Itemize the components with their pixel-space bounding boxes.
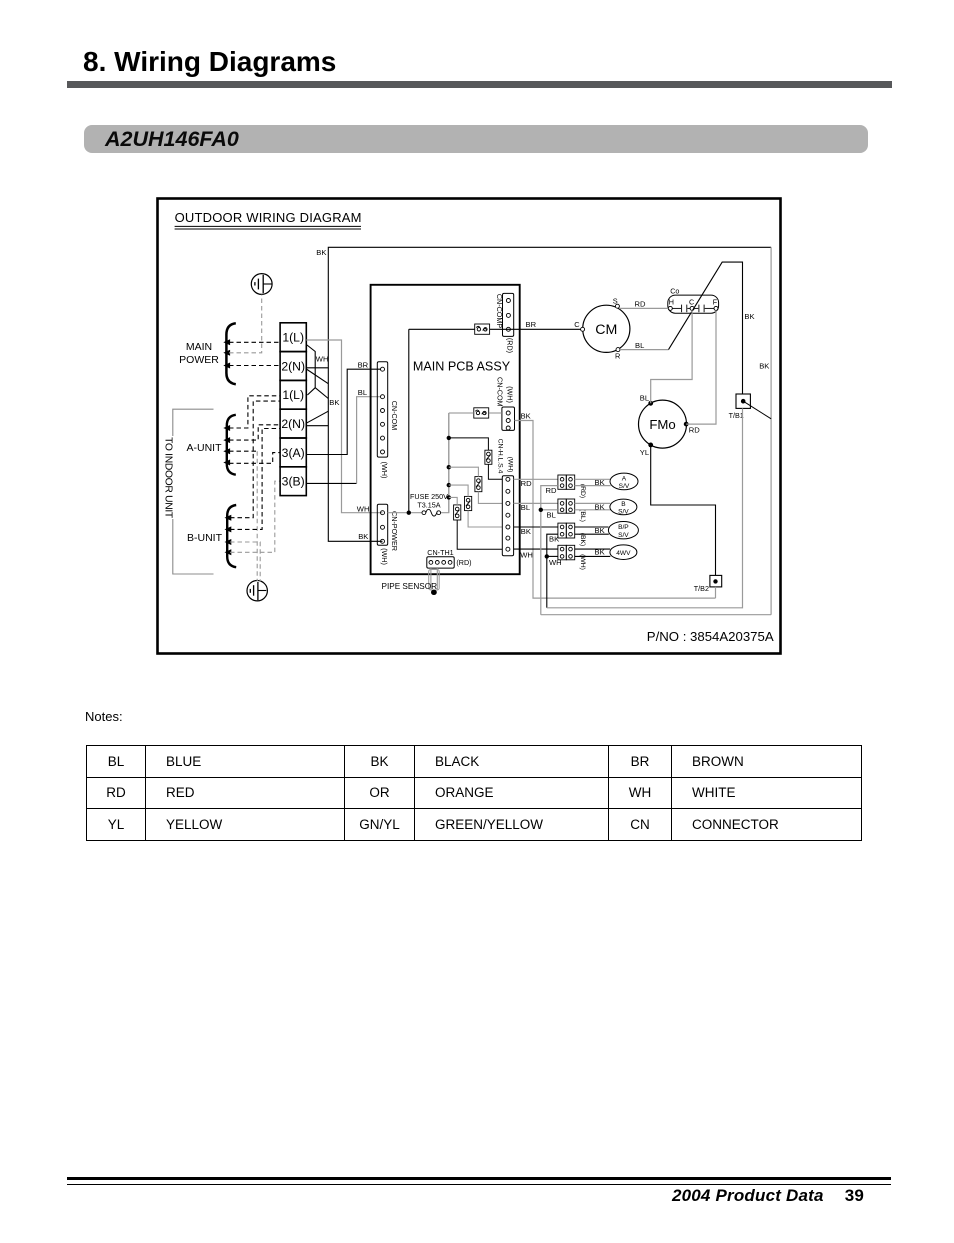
svg-text:BK: BK <box>549 534 559 543</box>
title OUTDOOR WIRING DIAGRAM <box>175 210 362 229</box>
B-UNIT brace <box>227 505 236 567</box>
wire WH branch <box>547 555 558 557</box>
arrow B-unit 4 <box>225 549 232 555</box>
wire BL CM R to TB1 <box>620 349 669 351</box>
arrow main power 3 <box>223 363 230 369</box>
arrow B-unit 2 <box>225 526 232 532</box>
svg-text:WH: WH <box>549 558 562 567</box>
svg-text:BL: BL <box>358 388 367 397</box>
wire relay R4 feed <box>449 497 457 505</box>
diagram frame <box>158 199 781 654</box>
svg-text:F: F <box>713 297 718 306</box>
svg-text:FMo: FMo <box>649 417 675 432</box>
fuse FUSE 250V T3.15A <box>410 492 448 516</box>
svg-text:BK: BK <box>521 412 531 421</box>
svg-text:T3.15A: T3.15A <box>417 501 440 510</box>
svg-text:CN-H.L.S.4: CN-H.L.S.4 <box>496 439 503 474</box>
labels RD BL BK WH feeds <box>546 486 562 567</box>
svg-text:RD: RD <box>635 299 646 308</box>
wire RD FMo to Co F <box>686 310 716 424</box>
connector CN-POWER <box>377 504 399 565</box>
connector pair 4WV <box>558 545 575 560</box>
wire relay bus vertical <box>448 413 450 513</box>
valve A S/V <box>610 473 638 490</box>
svg-text:A: A <box>622 475 627 482</box>
wire dashed A-unit 3 to ground <box>229 450 257 452</box>
svg-text:(RD): (RD) <box>506 338 515 353</box>
svg-text:A-UNIT: A-UNIT <box>187 442 223 454</box>
wire BL from 3B to CN-COM <box>306 482 356 484</box>
relay contact mid <box>474 408 489 418</box>
svg-text:3(A): 3(A) <box>282 446 305 460</box>
valve B S/V <box>610 499 637 515</box>
wire dashed A-unit 1 <box>229 396 280 428</box>
wire BK from CN-COM right <box>515 421 716 599</box>
svg-text:BK: BK <box>595 502 605 511</box>
svg-text:S: S <box>613 297 618 306</box>
svg-text:(WH): (WH) <box>506 457 513 473</box>
wire 2N jog link <box>306 369 328 426</box>
wire TB1 diagonal <box>743 401 771 419</box>
svg-text:BK: BK <box>744 312 754 321</box>
svg-text:B/P: B/P <box>618 524 629 531</box>
svg-text:C: C <box>574 320 580 329</box>
wire dashed main power L to 1(L) <box>229 341 280 343</box>
wire WH from 1L to CN-POWER <box>306 340 382 513</box>
main PCB assy box <box>371 285 520 574</box>
svg-text:OUTDOOR WIRING DIAGRAM: OUTDOOR WIRING DIAGRAM <box>175 210 362 225</box>
svg-text:WH: WH <box>520 550 533 559</box>
svg-text:(WH): (WH) <box>380 548 389 565</box>
svg-text:MAIN PCB ASSY: MAIN PCB ASSY <box>413 360 511 374</box>
svg-text:Co: Co <box>670 287 679 296</box>
A-UNIT brace <box>227 415 236 475</box>
svg-text:BK: BK <box>358 532 368 541</box>
svg-text:2(N): 2(N) <box>281 359 305 373</box>
wire relay R3 feed <box>449 485 468 496</box>
wire BK return feed <box>547 534 558 608</box>
pin labels RD BL BK WH <box>520 479 533 559</box>
arrow A-unit 1 <box>223 425 230 431</box>
svg-text:R: R <box>615 352 620 361</box>
wire dashed B-unit 1 <box>230 401 280 518</box>
svg-text:P/NO : 3854A20375A: P/NO : 3854A20375A <box>647 629 774 644</box>
svg-text:BK: BK <box>595 526 605 535</box>
fan motor FMo <box>639 394 701 458</box>
relay contact top <box>475 324 490 334</box>
wire BK vertical to CN-POWER <box>328 368 382 542</box>
wire BL to pair B <box>514 502 558 504</box>
arrow main power 1 <box>223 339 230 345</box>
svg-text:S/V: S/V <box>619 483 630 490</box>
arrow A-unit 4 <box>223 460 230 466</box>
svg-text:BK: BK <box>316 248 326 257</box>
svg-text:BK: BK <box>595 548 605 557</box>
wire link 1L to 1L <box>306 345 328 399</box>
wire TB1 down to wrap2 <box>547 408 743 607</box>
svg-text:RD: RD <box>546 486 557 495</box>
svg-text:BK: BK <box>521 527 531 536</box>
valve 4WV <box>610 545 637 560</box>
terminal T/B2 <box>694 575 722 592</box>
wire WH to pair 4WV <box>514 548 558 550</box>
terminal T/B1 <box>729 394 751 420</box>
wire relay R4 out <box>457 520 502 549</box>
svg-text:C: C <box>689 297 694 306</box>
TO INDOOR UNIT bracket <box>173 409 214 574</box>
junction dots relay bus <box>447 436 451 500</box>
junction dot BL <box>539 508 543 512</box>
svg-text:BR: BR <box>526 320 537 329</box>
svg-text:RD: RD <box>689 425 700 434</box>
svg-text:CN-POWER: CN-POWER <box>390 511 399 551</box>
svg-text:(WH): (WH) <box>380 462 389 479</box>
wires pair B to valve B <box>575 503 611 509</box>
MAIN POWER brace <box>226 323 235 384</box>
arrow B-unit 1 <box>225 515 232 521</box>
rotated labels (RD)(BL)(BK)(WH) <box>579 484 586 570</box>
svg-text:RD: RD <box>521 479 532 488</box>
wire vertical pcb main <box>408 329 410 512</box>
svg-text:BL: BL <box>547 510 556 519</box>
svg-text:H: H <box>669 297 674 306</box>
svg-text:3(B): 3(B) <box>282 475 305 489</box>
wire dashed A-unit 4 <box>229 453 280 464</box>
relay R2 <box>475 477 482 492</box>
ground symbol bottom <box>247 581 267 601</box>
pipe sensor <box>382 568 440 595</box>
wire dashed main power N to 2(N) <box>229 365 280 367</box>
svg-text:WH: WH <box>357 504 370 513</box>
svg-text:BL: BL <box>635 341 644 350</box>
svg-text:CM: CM <box>595 322 617 338</box>
terminal block <box>280 323 306 496</box>
relay R3 <box>465 496 472 510</box>
wires pair BP to valve BP <box>575 527 609 534</box>
wire TB2 to wrap1 <box>715 587 717 598</box>
svg-text:YL: YL <box>640 448 649 457</box>
relay R1 <box>485 450 492 464</box>
connector CN-TH1 <box>427 548 472 568</box>
wire wrap3 <box>541 614 771 616</box>
arrow A-unit 3 <box>223 448 230 454</box>
svg-text:BK: BK <box>759 361 769 370</box>
wire relay R1 feed <box>449 438 489 450</box>
wire relay mid links <box>449 412 502 414</box>
valve B/P S/V <box>608 522 638 540</box>
svg-text:CN-TH1: CN-TH1 <box>427 548 453 557</box>
connector CN-COM right <box>495 377 514 430</box>
wire RD return feed <box>541 486 558 615</box>
arrow main power 2 <box>223 350 230 356</box>
wire relay R2 out <box>478 492 502 504</box>
terminal labels <box>281 331 305 489</box>
wire BR from 3A to CN-COM <box>306 369 380 454</box>
svg-text:S/V: S/V <box>618 508 629 515</box>
wire RD to pair A <box>514 478 558 480</box>
svg-text:(WH): (WH) <box>506 386 515 403</box>
svg-text:(BL): (BL) <box>579 509 586 522</box>
connector CN-H.L.S.4 <box>496 439 513 556</box>
connector pair A <box>558 475 575 489</box>
wire dashed B-unit 3 to ground <box>230 542 260 581</box>
wire dashed B-unit 4 <box>230 481 280 552</box>
svg-text:1(L): 1(L) <box>282 331 304 345</box>
wire RD CM S to Co H <box>619 307 668 309</box>
junction dot WH <box>545 554 549 558</box>
wire BL FMo to Co C <box>651 310 692 403</box>
wire dashed main power ground <box>229 295 262 353</box>
arrow A-unit 2 <box>223 437 230 443</box>
wire relay R1 out <box>488 464 502 479</box>
capacitor Co <box>668 287 719 314</box>
wires pair A to valve A <box>575 479 611 485</box>
svg-text:PIPE SENSOR: PIPE SENSOR <box>382 582 438 591</box>
svg-text:B: B <box>621 501 626 508</box>
wire BK to pair BP <box>514 526 558 528</box>
wire BL branch <box>541 509 558 511</box>
svg-text:S/V: S/V <box>618 532 629 539</box>
svg-text:MAIN: MAIN <box>186 341 212 353</box>
svg-text:BL: BL <box>521 503 530 512</box>
wire BL diagonal to T/B1 <box>669 262 743 394</box>
connector CN-COM left <box>377 362 399 479</box>
wire dashed A-unit 2 <box>229 425 280 440</box>
svg-text:B-UNIT: B-UNIT <box>187 532 223 544</box>
svg-text:2(N): 2(N) <box>281 417 305 431</box>
connector CN-COMP <box>495 293 514 353</box>
arrow B-unit 3 <box>225 539 232 545</box>
svg-text:BK: BK <box>329 398 339 407</box>
svg-text:POWER: POWER <box>179 354 219 366</box>
compressor motor CM <box>574 297 630 361</box>
svg-text:T/B2: T/B2 <box>694 584 709 593</box>
svg-text:BR: BR <box>358 360 369 369</box>
wire YL FMo to TB2 <box>651 445 716 576</box>
svg-text:CN-COMP: CN-COMP <box>495 294 504 329</box>
ground symbol top <box>251 274 272 295</box>
junction dot WH-fuse <box>407 511 411 515</box>
svg-text:1(L): 1(L) <box>282 388 304 402</box>
svg-text:CN-COM: CN-COM <box>390 401 399 431</box>
wire dashed B-unit 2 <box>230 429 280 530</box>
svg-text:4WV: 4WV <box>616 550 631 557</box>
connector pair BP <box>558 523 575 538</box>
svg-text:CN-COM: CN-COM <box>495 377 504 407</box>
wire relay R3 out <box>468 511 502 527</box>
wire BR compressor line <box>409 328 583 330</box>
svg-text:T/B1: T/B1 <box>729 411 744 420</box>
svg-text:TO INDOOR UNIT: TO INDOOR UNIT <box>163 437 174 519</box>
connector pair B <box>558 499 575 513</box>
svg-text:BL: BL <box>640 394 649 403</box>
svg-text:WH: WH <box>316 355 329 364</box>
svg-text:BK: BK <box>595 478 605 487</box>
MAIN POWER label <box>179 341 219 366</box>
wire relay R2 feed <box>449 467 479 476</box>
svg-text:(RD): (RD) <box>456 558 471 567</box>
relay R4 <box>454 505 461 520</box>
wire WH fuse line <box>388 413 449 513</box>
wires pair 4WV to 4WV <box>575 549 611 556</box>
wire BK top main <box>306 247 771 367</box>
